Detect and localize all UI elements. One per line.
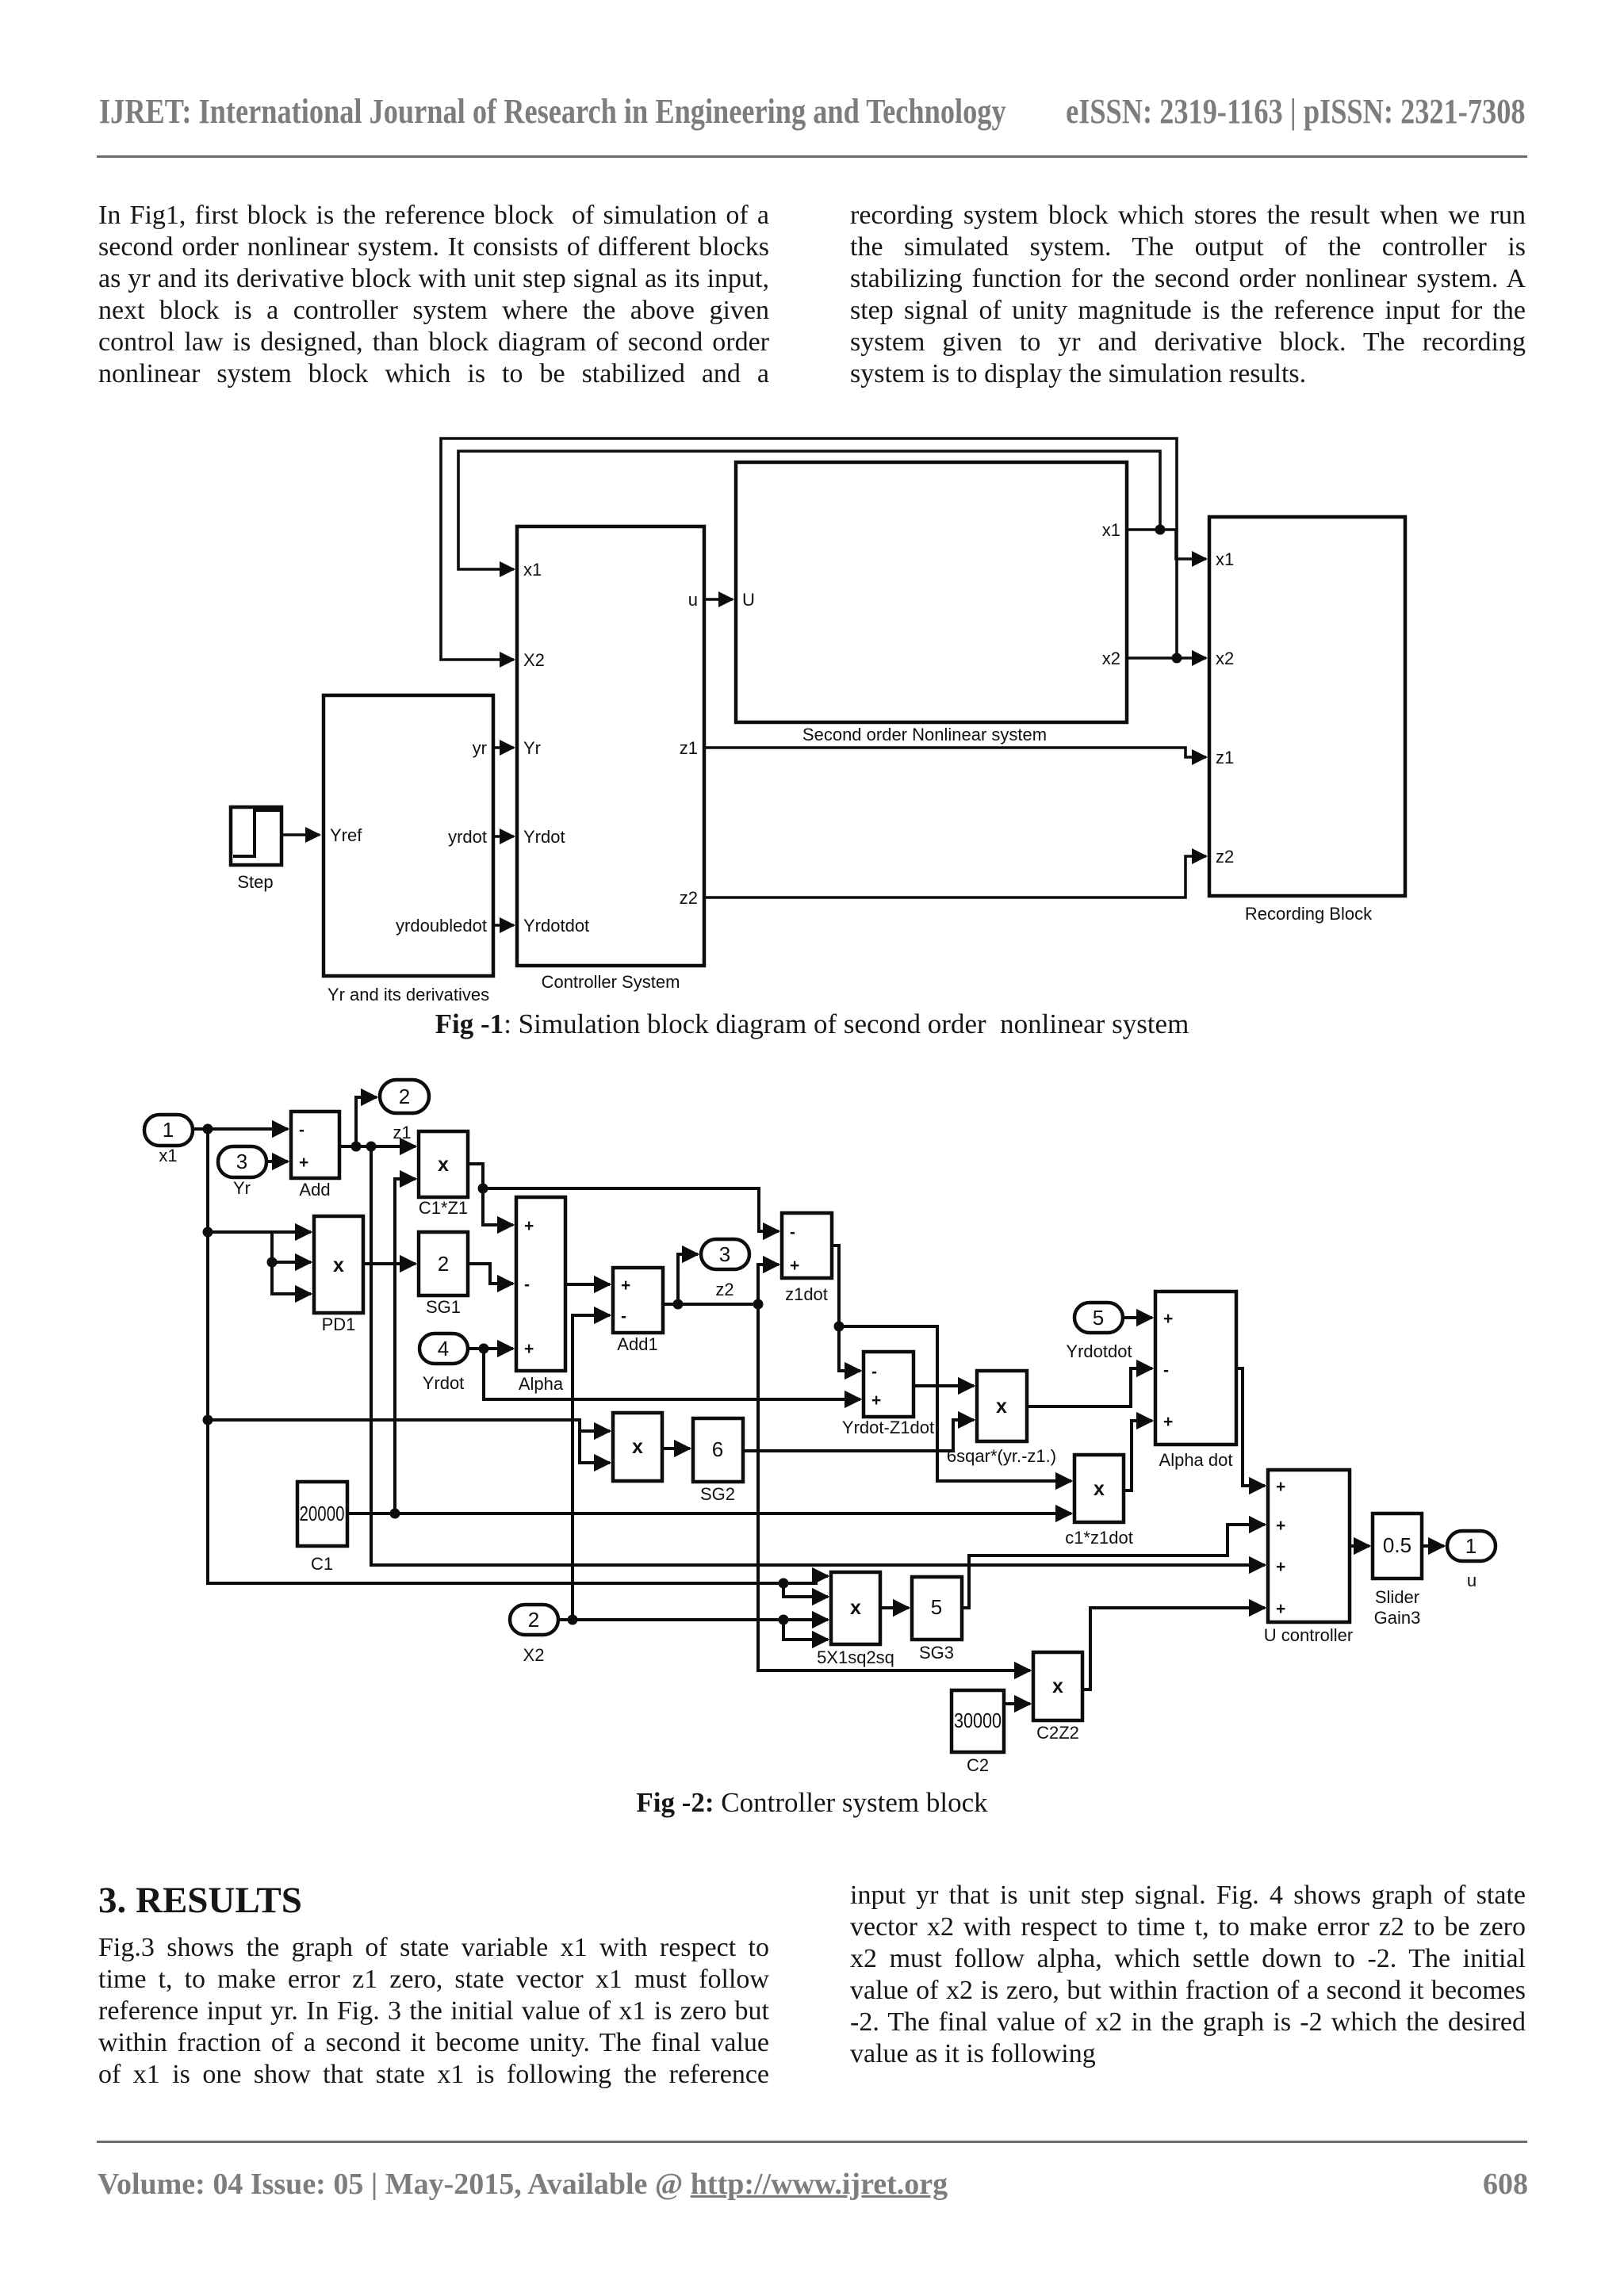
Figure 1: Simulink diagram <box>206 432 1427 1011</box>
sum block U controller <box>1264 1470 1353 1645</box>
footer rule <box>97 2141 1527 2143</box>
Recording Block <box>1209 517 1405 924</box>
footer left <box>98 2167 948 2202</box>
wire x2 feedback to controller X2 <box>441 438 1177 660</box>
inport oval 1 x1 <box>144 1115 193 1165</box>
wire x1 branch to PD1 in1 <box>208 1230 311 1234</box>
outport oval 2 z1 <box>380 1080 429 1142</box>
wire x1 input to Add minus <box>193 1127 288 1131</box>
svg-text:Yr: Yr <box>233 1178 251 1198</box>
svg-text:Alpha: Alpha <box>519 1374 564 1394</box>
svg-text:Slider: Slider <box>1375 1587 1419 1607</box>
wire Step to Yref <box>283 833 320 836</box>
svg-text:+: + <box>871 1391 881 1410</box>
wire 5X1sq2sq out to SG3 <box>880 1606 909 1609</box>
svg-text:3: 3 <box>719 1242 730 1266</box>
inport oval 4 Yrdot <box>419 1334 468 1393</box>
svg-text:5: 5 <box>931 1595 942 1619</box>
wire yrdot to Yrdot <box>493 835 514 838</box>
junction X2 <box>568 1615 578 1625</box>
svg-text:yrdot: yrdot <box>448 827 487 847</box>
junction z1 to outport2 <box>351 1142 362 1152</box>
svg-text:z1: z1 <box>393 1123 411 1142</box>
svg-text:U: U <box>742 590 755 610</box>
svg-text:u: u <box>1467 1571 1477 1590</box>
wire z1 to Recording z1 <box>704 748 1206 757</box>
svg-text:x: x <box>850 1597 861 1619</box>
wire Yrdot branch to Yrdot-Z1dot plus <box>484 1349 860 1399</box>
product block C1*Z1 <box>419 1131 468 1218</box>
wire SG3 out to U controller in2 <box>962 1525 1265 1608</box>
gain block SG2 <box>693 1418 743 1504</box>
svg-text:2: 2 <box>438 1252 449 1276</box>
wire Add output z1 to C1*Z1 in1 <box>339 1145 416 1148</box>
svg-text:yrdoubledot: yrdoubledot <box>396 916 487 936</box>
wire product bus top arm <box>580 1429 610 1433</box>
wire u to U <box>704 598 733 601</box>
svg-text:-: - <box>524 1276 530 1294</box>
product block C2Z2 <box>1033 1652 1082 1743</box>
svg-text:C2: C2 <box>967 1755 989 1775</box>
svg-text:x: x <box>1052 1675 1063 1697</box>
wire C2Z2 out to U controller in4 <box>1082 1608 1265 1689</box>
wire Add1 out junction run <box>663 1303 758 1306</box>
junction z1 trunk <box>366 1142 377 1152</box>
gain block Slider Gain3 <box>1373 1513 1422 1628</box>
wire SG1 out to Alpha in2 <box>468 1264 513 1284</box>
svg-text:+: + <box>524 1340 534 1358</box>
wire c1*z1 long run to z1dot minus <box>483 1188 779 1231</box>
wire Yr input to Add plus <box>266 1160 288 1163</box>
wire 6sqar out to Alpha dot minus <box>1027 1368 1152 1406</box>
svg-text:x: x <box>438 1154 449 1176</box>
svg-text:+: + <box>790 1257 799 1275</box>
product block c1*z1dot <box>1065 1455 1133 1548</box>
svg-text:+: + <box>1163 1310 1173 1328</box>
svg-text:z1dot: z1dot <box>785 1284 828 1304</box>
wire Yrdot-Z1dot out to 6sqar in1 <box>913 1384 974 1387</box>
wire U controller out to Slider Gain3 <box>1350 1544 1369 1548</box>
svg-text:SG3: SG3 <box>919 1643 954 1663</box>
sum block Alpha dot <box>1155 1291 1236 1470</box>
svg-text:x1: x1 <box>1216 549 1234 569</box>
svg-text:+: + <box>299 1154 308 1172</box>
junction x1 to product <box>203 1415 213 1425</box>
svg-text:6: 6 <box>712 1437 723 1461</box>
svg-text:Yrdotdot: Yrdotdot <box>523 916 589 936</box>
svg-text:+: + <box>1276 1517 1285 1535</box>
svg-text:yr: yr <box>473 738 487 758</box>
wire z2 up to outport 3 <box>678 1254 698 1304</box>
wire Add1 out to z1dot plus <box>758 1265 779 1304</box>
wire PD1 bus to in3 <box>272 1232 311 1294</box>
svg-text:Yr: Yr <box>523 738 541 758</box>
svg-text:5: 5 <box>1093 1306 1104 1330</box>
header left <box>99 92 1006 132</box>
caption fig 1 <box>0 1008 1624 1040</box>
svg-text:Yrdotdot: Yrdotdot <box>1066 1341 1132 1361</box>
svg-text:C1: C1 <box>311 1554 333 1574</box>
outport oval 1 u <box>1447 1531 1496 1590</box>
Figure 2: controller system diagram <box>119 1070 1515 1784</box>
svg-text:C2Z2: C2Z2 <box>1036 1723 1079 1743</box>
svg-text:2: 2 <box>528 1608 539 1632</box>
wire Slider Gain3 out to outport 1 <box>1422 1544 1444 1548</box>
results right column <box>850 1880 1526 2070</box>
junction x2 <box>1172 653 1182 664</box>
svg-text:x: x <box>632 1436 643 1458</box>
junction PD1 bus <box>267 1257 278 1268</box>
junction Add1 out trunk <box>753 1299 764 1310</box>
wire C1*Z1 out to Alpha in1 <box>468 1164 513 1225</box>
inport oval 5 Yrdotdot <box>1066 1303 1132 1361</box>
wire x2 output to Recording x2 <box>1127 656 1206 660</box>
wire c1*z1dot out to Alpha dot plus3 <box>1124 1421 1152 1490</box>
outport oval 3 z2 <box>701 1239 749 1299</box>
svg-text:3: 3 <box>236 1150 247 1173</box>
product block 6sqar <box>947 1371 1056 1466</box>
wire z2 down to C2Z2 in1 <box>758 1304 1030 1670</box>
sum block Yrdot-Z1dot <box>842 1352 934 1437</box>
wire z1 up to outport 2 <box>356 1097 377 1146</box>
inport oval 3 Yr <box>218 1146 266 1198</box>
svg-text:Yrdot: Yrdot <box>523 827 565 847</box>
svg-text:4: 4 <box>438 1337 449 1360</box>
product block 5X1sq2sq <box>817 1572 894 1667</box>
svg-text:20000: 20000 <box>300 1502 345 1525</box>
svg-text:U controller: U controller <box>1264 1625 1353 1645</box>
sum block z1dot <box>782 1213 832 1304</box>
wire x1 output to Recording x1 <box>1127 530 1206 559</box>
inport oval 2 X2 <box>510 1605 558 1665</box>
svg-text:+: + <box>524 1217 534 1235</box>
constant block C1 20000 <box>297 1482 347 1574</box>
svg-text:Step: Step <box>237 872 273 892</box>
wire x1 branch to 5X1sq2sq in2 <box>783 1583 828 1597</box>
svg-text:x1: x1 <box>159 1146 177 1165</box>
svg-text:30000: 30000 <box>954 1709 1002 1732</box>
wire Alpha dot out to U controller in1 <box>1236 1368 1265 1486</box>
svg-text:x: x <box>1094 1478 1105 1500</box>
constant block C2 30000 <box>952 1690 1004 1775</box>
svg-text:5X1sq2sq: 5X1sq2sq <box>817 1647 894 1667</box>
svg-text:Add: Add <box>299 1180 330 1200</box>
wire z1dot branch to c1*z1dot in1 <box>839 1326 1071 1481</box>
junction C1 line <box>390 1509 400 1519</box>
gain block SG3 <box>912 1577 962 1663</box>
svg-text:Yr and its derivatives: Yr and its derivatives <box>327 985 489 1004</box>
junction x1 bus 5X1sq2sq <box>779 1578 789 1589</box>
svg-text:X2: X2 <box>523 650 545 670</box>
junction x1 <box>1155 525 1166 535</box>
svg-text:Yrdot: Yrdot <box>423 1373 465 1393</box>
svg-text:-: - <box>790 1223 795 1242</box>
svg-text:Gain3: Gain3 <box>1374 1608 1421 1628</box>
Second order Nonlinear system block <box>736 462 1127 744</box>
svg-text:c1*z1dot: c1*z1dot <box>1065 1528 1133 1548</box>
Controller System block <box>517 526 704 992</box>
svg-text:x: x <box>333 1254 344 1276</box>
sum block Alpha <box>516 1197 565 1394</box>
wire z2 to Recording z2 <box>704 856 1206 897</box>
wire Yrdotdot to Alpha dot plus1 <box>1123 1316 1152 1319</box>
svg-text:+: + <box>621 1276 630 1295</box>
svg-text:+: + <box>1276 1600 1285 1618</box>
wire X2 branch to 5X1sq2sq in4 <box>783 1620 828 1640</box>
svg-text:Controller System: Controller System <box>542 972 680 992</box>
svg-text:1: 1 <box>163 1118 174 1142</box>
junction X2 bus 5X1sq2sq <box>779 1615 789 1625</box>
sum block Add1 <box>613 1268 663 1354</box>
svg-text:Yrdot-Z1dot: Yrdot-Z1dot <box>842 1418 934 1437</box>
svg-text:u: u <box>688 590 698 610</box>
wire yrdoubledot to Yrdotdot <box>493 924 514 927</box>
wire yr to Yr <box>493 746 514 749</box>
intro right column <box>850 200 1526 390</box>
junction Yrdot <box>479 1344 489 1354</box>
gain block SG1 <box>419 1232 468 1317</box>
svg-text:PD1: PD1 <box>322 1314 356 1334</box>
svg-text:+: + <box>1163 1413 1173 1431</box>
svg-text:-: - <box>621 1307 626 1326</box>
wire PD1 out to SG1 <box>363 1262 416 1265</box>
svg-text:z2: z2 <box>1216 847 1234 867</box>
product block PD1 <box>314 1216 363 1334</box>
svg-text:z2: z2 <box>680 888 698 908</box>
section heading <box>98 1879 302 1922</box>
Step block <box>231 807 282 892</box>
svg-text:2: 2 <box>399 1085 410 1108</box>
wire product out to SG2 <box>662 1447 690 1450</box>
svg-text:x2: x2 <box>1216 649 1234 668</box>
caption fig 2 <box>0 1787 1624 1819</box>
wire PD1 bus to in2 <box>272 1261 311 1264</box>
wire z1dot out to Yrdot-Z1dot minus <box>832 1246 860 1371</box>
wire Alpha out to Add1 plus <box>565 1283 610 1286</box>
sum block Add <box>291 1112 339 1200</box>
svg-text:SG1: SG1 <box>426 1297 461 1317</box>
svg-text:z2: z2 <box>715 1280 733 1299</box>
junction x1 to PD1 <box>203 1227 213 1238</box>
wire C2 to C2Z2 in2 <box>1004 1702 1030 1705</box>
wire X2 up to Add1 minus <box>558 1315 610 1620</box>
svg-text:-: - <box>299 1121 304 1139</box>
wire SG2 out to 6sqar in2 <box>743 1420 974 1451</box>
wire X2 run to 5X1sq2sq in3 <box>573 1618 828 1621</box>
wire C1 20000 long run to c1*z1dot in2 <box>347 1512 1071 1515</box>
svg-text:x1: x1 <box>1102 520 1120 540</box>
intro left column <box>98 200 769 390</box>
svg-text:Alpha dot: Alpha dot <box>1159 1450 1233 1470</box>
wire x1 trunk down and bottom run to 5X1sq2sq in1 <box>208 1129 828 1583</box>
svg-text:z1: z1 <box>680 738 698 758</box>
svg-text:1: 1 <box>1465 1534 1477 1558</box>
svg-text:z1: z1 <box>1216 748 1234 767</box>
svg-text:Add1: Add1 <box>617 1334 657 1354</box>
wire z1 down long run to U controller in3 <box>371 1146 1265 1565</box>
svg-text:+: + <box>1276 1558 1285 1576</box>
svg-text:X2: X2 <box>523 1645 545 1665</box>
svg-text:x: x <box>996 1395 1007 1418</box>
svg-text:SG2: SG2 <box>700 1484 735 1504</box>
svg-text:C1*Z1: C1*Z1 <box>419 1198 468 1218</box>
svg-text:Second order Nonlinear system: Second order Nonlinear system <box>802 725 1047 744</box>
svg-text:0.5: 0.5 <box>1383 1533 1411 1557</box>
wire C1 up to C1*Z1 in2 <box>395 1179 416 1513</box>
wire x1 branch to product bus <box>208 1420 610 1463</box>
Yr and its derivatives block <box>324 695 493 1004</box>
svg-text:x1: x1 <box>523 560 542 580</box>
header right <box>1067 92 1526 132</box>
junction z2 <box>673 1299 684 1310</box>
svg-text:-: - <box>871 1363 877 1381</box>
junction c1*z1 line <box>478 1184 488 1194</box>
svg-text:Yref: Yref <box>330 825 362 845</box>
header rule <box>97 155 1527 158</box>
wire x1 feedback to controller x1 <box>458 451 1160 569</box>
svg-text:-: - <box>1163 1361 1169 1380</box>
wire Yrdot to Alpha in3 <box>468 1347 513 1350</box>
results left column <box>98 1932 769 2091</box>
junction z1dot branch <box>834 1322 845 1332</box>
product block x1 squared <box>613 1413 662 1481</box>
junction x1 at inport <box>203 1124 213 1135</box>
svg-text:Recording Block: Recording Block <box>1245 904 1373 924</box>
svg-text:6sqar*(yr.-z1.): 6sqar*(yr.-z1.) <box>947 1446 1056 1466</box>
footer right page number <box>1483 2167 1528 2202</box>
svg-text:x2: x2 <box>1102 649 1120 668</box>
svg-text:+: + <box>1276 1478 1285 1496</box>
